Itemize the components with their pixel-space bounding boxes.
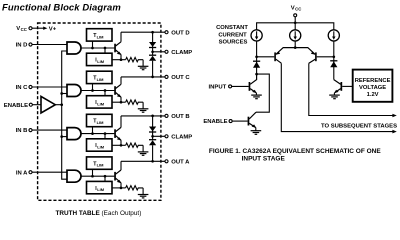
wire enable distribution vertical: [62, 51, 67, 179]
svg-text:IN C: IN C: [16, 85, 29, 91]
ground reference transistor: [329, 93, 340, 99]
svg-text:IN B: IN B: [16, 128, 28, 134]
output transistor QA: [114, 170, 121, 183]
svg-text:CC: CC: [21, 27, 27, 32]
pin INPUT: [209, 85, 232, 91]
ILIM block A: [87, 181, 113, 193]
pnp transistor Q-right of diff pair: [295, 48, 334, 64]
svg-text:CURRENT: CURRENT: [218, 32, 247, 38]
svg-text:LIM: LIM: [97, 163, 105, 168]
wire IN A to AND gate: [32, 171, 67, 173]
ground enable transistor: [251, 128, 262, 135]
clamp diode 1a (cathode down): [149, 42, 156, 48]
TLIM block D: [87, 29, 113, 41]
resistor RD: [126, 57, 144, 61]
node below left diode: [255, 73, 258, 76]
current source I1: [251, 30, 262, 41]
pin OUT D: [165, 30, 190, 36]
svg-text:LIM: LIM: [97, 145, 105, 150]
pin VCC: [16, 26, 32, 32]
dashed boundary of functional block: [38, 23, 161, 200]
label CONSTANT CURRENT SOURCES: [216, 25, 248, 45]
svg-text:IN A: IN A: [16, 170, 28, 176]
ILIM block B: [87, 139, 113, 151]
wire ILIM C stub: [104, 89, 107, 96]
wire TLIM C stub: [91, 84, 94, 92]
reference voltage block 1.2V: [353, 70, 393, 102]
AND gate B: [67, 128, 81, 140]
wire right collector to subsequent stages (upper): [309, 63, 397, 117]
wire TLIM B stub: [91, 127, 94, 135]
svg-text:CONSTANT: CONSTANT: [216, 25, 248, 31]
svg-text:LIM: LIM: [97, 120, 105, 125]
wire OUT C line: [121, 76, 165, 78]
svg-text:CLAMP: CLAMP: [171, 50, 192, 56]
wire INPUT to base: [232, 85, 249, 87]
pin IN D: [16, 43, 32, 49]
svg-text:V+: V+: [49, 26, 57, 32]
TLIM block C: [87, 71, 113, 83]
wire VCC rail: [257, 23, 334, 30]
pin OUT C: [165, 75, 190, 81]
svg-text:CC: CC: [295, 6, 301, 11]
node CLAMP 1: [151, 48, 165, 56]
wire diff pair emitter node: [294, 41, 297, 49]
AND gate C: [67, 85, 81, 97]
wire emitter node A: [112, 183, 126, 189]
svg-text:OUT D: OUT D: [171, 30, 189, 36]
svg-text:LIM: LIM: [97, 101, 105, 106]
wire collector QD to OUT D line: [120, 32, 122, 42]
svg-text:IN D: IN D: [16, 43, 28, 49]
current source I3: [328, 30, 339, 41]
svg-text:TRUTH TABLE (Each Output): TRUTH TABLE (Each Output): [56, 210, 142, 217]
output transistor QC: [114, 84, 121, 97]
wire enable collector to left branch: [256, 74, 269, 112]
svg-text:REFERENCE: REFERENCE: [355, 78, 391, 84]
svg-text:OUT C: OUT C: [171, 75, 190, 81]
wire IN D to AND gate: [32, 44, 67, 46]
wire left collector to subsequent stages (lower): [281, 63, 397, 133]
wire left branch: [256, 41, 258, 74]
TLIM block A: [87, 157, 113, 169]
wire AND gate A output: [81, 175, 114, 177]
resistor RB: [126, 143, 144, 147]
wire right branch: [333, 41, 335, 80]
svg-text:LIM: LIM: [97, 77, 105, 82]
wire clamp branch 2 lower: [151, 145, 154, 162]
pin ENABLE: [4, 103, 33, 109]
wire VCC stem: [294, 17, 297, 24]
svg-text:CLAMP: CLAMP: [171, 135, 192, 141]
svg-text:ENABLE: ENABLE: [203, 119, 227, 125]
ground for RB: [138, 145, 149, 155]
wire emitter node B: [112, 140, 126, 146]
wire enable stub to gate B: [60, 135, 67, 138]
wire IN B to AND gate: [32, 129, 67, 131]
wire TLIM D stub: [91, 41, 94, 49]
wire clamp branch 2 upper: [151, 115, 154, 132]
npn reference transistor: [334, 80, 342, 94]
pin IN B: [16, 128, 32, 134]
wire AND gate C output: [81, 90, 114, 92]
pin IN A: [16, 170, 32, 176]
svg-text:ENABLE: ENABLE: [4, 103, 28, 109]
pin VCC (figure 1): [291, 5, 302, 16]
resistor RC: [126, 100, 144, 104]
wire collector QA to OUT A line: [120, 161, 122, 170]
svg-text:VOLTAGE: VOLTAGE: [359, 85, 386, 91]
output transistor QB: [114, 127, 121, 140]
wire collector QC to OUT C line: [120, 77, 122, 84]
svg-text:LIM: LIM: [97, 187, 105, 192]
pin CLAMP 1: [165, 50, 192, 56]
wire VCC to V+ arrow: [32, 27, 47, 30]
node left base tee: [255, 55, 258, 58]
wire middle rail stub: [294, 23, 296, 30]
wire enable stub to gate C: [60, 92, 67, 95]
AND gate D: [67, 42, 81, 54]
wire OUT A line: [121, 160, 165, 162]
caption FIGURE 1: [209, 148, 381, 163]
wire ILIM D stub: [104, 47, 107, 54]
ground input transistor: [251, 93, 262, 99]
npn input transistor: [249, 74, 257, 93]
wire clamp branch 1 lower: [151, 61, 154, 79]
wire ENABLE to buffer: [33, 104, 42, 106]
clamp diode 1b (cathode up): [149, 55, 156, 61]
wire ENABLE to base: [232, 120, 247, 122]
current source I2: [290, 30, 301, 41]
pin OUT A: [165, 160, 190, 166]
svg-text:TO SUBSEQUENT STAGES: TO SUBSEQUENT STAGES: [321, 124, 397, 130]
wire AND gate D output: [81, 47, 114, 49]
wire IN C to AND gate: [32, 86, 67, 88]
wire base to reference voltage block: [342, 85, 353, 87]
TLIM block B: [87, 114, 113, 126]
diode right branch (cathode up): [330, 61, 337, 68]
wire ILIM B stub: [104, 132, 107, 139]
pin ENABLE (figure 1): [203, 119, 232, 125]
wire emitter node C: [112, 97, 126, 103]
node right base tee: [332, 55, 335, 58]
ground for RC: [138, 102, 149, 112]
svg-text:LIM: LIM: [97, 59, 105, 64]
AND gate A: [67, 170, 81, 182]
svg-text:SOURCES: SOURCES: [219, 39, 248, 45]
wire buffer output: [55, 103, 63, 106]
wire ILIM A stub: [104, 175, 107, 182]
svg-text:INPUT STAGE: INPUT STAGE: [242, 156, 286, 163]
svg-text:Functional Block Diagram: Functional Block Diagram: [2, 3, 121, 14]
svg-text:1.2V: 1.2V: [367, 92, 379, 98]
pin OUT B: [165, 114, 190, 120]
svg-text:INPUT: INPUT: [209, 85, 227, 91]
ILIM block C: [87, 96, 113, 108]
pin CLAMP 2: [165, 135, 192, 141]
svg-text:FIGURE 1. CA3262A EQUIVALEN: FIGURE 1. CA3262A EQUIVALENT SCHEMATIC O…: [209, 148, 381, 155]
svg-text:OUT B: OUT B: [171, 114, 189, 120]
clamp diode 2a (cathode down): [149, 127, 156, 133]
node CLAMP 2: [151, 132, 165, 140]
wire OUT B line: [121, 115, 165, 117]
svg-text:OUT A: OUT A: [171, 160, 190, 166]
diode left branch (cathode up): [253, 61, 260, 67]
resistor RA: [126, 186, 144, 190]
wire clamp branch 1 upper: [151, 31, 154, 48]
wire collector QB to OUT B line: [120, 116, 122, 128]
wire emitter node D: [112, 55, 126, 61]
wire OUT D line: [121, 31, 165, 33]
ground for RD: [138, 60, 149, 70]
output transistor QD: [114, 42, 121, 55]
wire TLIM A stub: [91, 169, 94, 177]
pin IN C: [16, 85, 32, 91]
ground for RA: [138, 188, 149, 198]
wire AND gate B output: [81, 133, 114, 135]
clamp diode 2b (cathode up): [149, 140, 156, 146]
svg-text:LIM: LIM: [97, 34, 105, 39]
enable buffer amplifier: [41, 96, 55, 113]
ILIM block D: [87, 53, 113, 65]
pnp transistor Q-left of diff pair: [257, 48, 296, 64]
npn enable transistor: [248, 112, 257, 128]
